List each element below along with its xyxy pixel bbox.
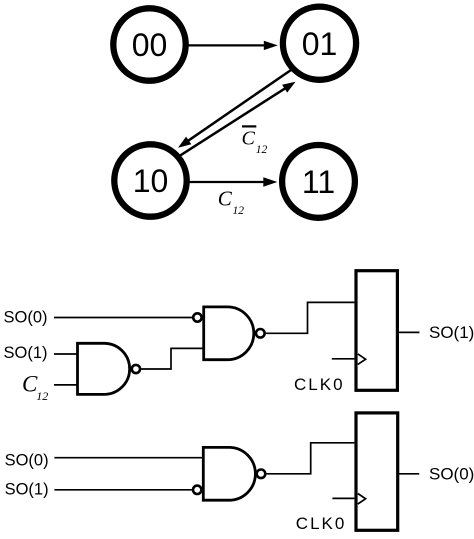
transition arrow 00 to 01 <box>187 41 278 50</box>
nand gate U3 <box>203 447 255 500</box>
state 01 <box>283 7 356 80</box>
svg-text:12: 12 <box>256 144 268 156</box>
wire FF2 Q output <box>398 473 420 475</box>
wire U3 output to flip-flop FF2 D input <box>266 443 355 474</box>
svg-text:SO(1): SO(1) <box>5 481 49 499</box>
svg-text:C: C <box>218 187 233 211</box>
input bubble on gate U3 pin 2 <box>193 486 201 494</box>
state 10 <box>114 144 186 216</box>
transition arrow 10 to 01 <box>180 82 296 156</box>
svg-text:CLK0: CLK0 <box>296 514 347 533</box>
clock triangle of FF1 <box>358 354 366 365</box>
wire U1 output to U2 lower input <box>141 348 204 369</box>
svg-text:12: 12 <box>233 205 245 217</box>
nand gate U2 <box>204 307 254 360</box>
clock wire CLK0 to FF1 <box>332 358 355 360</box>
wire FF1 Q output <box>397 331 419 333</box>
svg-text:SO(0): SO(0) <box>4 308 48 326</box>
svg-text:11: 11 <box>302 164 335 200</box>
output bubble of gate U3 <box>257 470 266 479</box>
output bubble of gate U1 <box>132 365 140 373</box>
nand gate U1 <box>78 343 130 394</box>
svg-text:SO(0): SO(0) <box>5 452 49 470</box>
wire SO(0) to gate U3 <box>54 457 203 459</box>
svg-text:01: 01 <box>302 26 338 62</box>
input bubble on gate U2 pin 1 <box>193 313 201 321</box>
wire U2 output to flip-flop FF1 D input <box>265 302 354 333</box>
label C12 on transition 10/11 <box>218 187 244 217</box>
output bubble of gate U2 <box>256 329 265 338</box>
transition arrow 01 to 10 <box>178 70 291 148</box>
clock triangle of FF2 <box>358 494 366 505</box>
svg-text:10: 10 <box>133 163 169 199</box>
wire SO(1) to gate U1 <box>54 353 78 355</box>
wire SO(0) to gate U2 input bubble <box>54 317 193 319</box>
wire SO(1) to gate U3 input bubble <box>54 489 192 491</box>
state 11 <box>282 145 355 218</box>
transition arrow 10 to 11 <box>188 177 278 186</box>
svg-text:SO(1): SO(1) <box>429 323 474 342</box>
svg-text:00: 00 <box>132 27 168 63</box>
svg-text:12: 12 <box>36 389 48 403</box>
wire C12 to gate U1 <box>54 384 78 386</box>
state 00 <box>113 8 185 80</box>
flip-flop FF2 <box>356 413 398 530</box>
svg-text:SO(1): SO(1) <box>4 344 48 362</box>
svg-text:CLK0: CLK0 <box>294 375 345 394</box>
input label C12 of upper circuit <box>22 372 48 404</box>
svg-text:SO(0): SO(0) <box>429 465 474 484</box>
clock wire CLK0 to FF2 <box>332 497 354 499</box>
svg-text:C: C <box>242 128 256 150</box>
flip-flop FF1 <box>356 271 397 391</box>
label C12-bar on transition 01/10 <box>242 126 268 156</box>
